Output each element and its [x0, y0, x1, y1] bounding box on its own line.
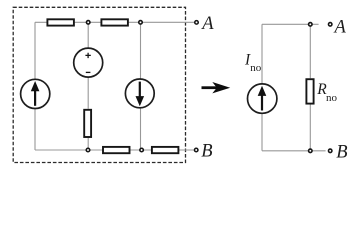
- wire left branch (left circuit): [34, 22, 36, 150]
- voltage source (+/-): [74, 48, 103, 77]
- terminal B (right circuit): [328, 149, 332, 153]
- current source Ino (up arrow): [248, 84, 277, 113]
- svg-text:A: A: [200, 14, 214, 34]
- resistor middle vertical: [84, 110, 91, 137]
- svg-text:A: A: [333, 17, 347, 37]
- svg-text:no: no: [250, 62, 262, 74]
- current source right (down arrow): [125, 79, 154, 108]
- resistor top-left: [47, 19, 74, 25]
- svg-text:no: no: [326, 92, 338, 104]
- wire top bus (right circuit): [262, 23, 319, 25]
- terminal A (right circuit): [328, 23, 332, 27]
- wire bottom bus (right circuit): [262, 150, 326, 152]
- resistor bottom-left: [103, 147, 130, 153]
- wire Rno branch (right circuit): [309, 24, 311, 151]
- resistor Rno: [306, 79, 313, 103]
- resistor top-right: [101, 19, 128, 25]
- wire middle branch (left circuit): [87, 22, 89, 150]
- current source left (up arrow): [21, 79, 50, 108]
- node top (right circuit): [309, 23, 313, 27]
- wire bottom bus (left circuit): [35, 149, 194, 151]
- node bottom (right circuit): [309, 149, 313, 153]
- node top-right: [139, 21, 143, 25]
- node bottom-right: [140, 148, 144, 152]
- wire left branch (right circuit): [261, 24, 263, 151]
- terminal B (left circuit): [194, 148, 198, 152]
- wire right branch (left circuit): [140, 22, 142, 150]
- label Rno: [316, 81, 337, 104]
- node bottom-middle: [86, 148, 90, 152]
- terminal A (left circuit): [195, 21, 199, 25]
- node top-middle: [86, 21, 90, 25]
- svg-text:B: B: [336, 142, 347, 162]
- svg-text:B: B: [201, 141, 212, 161]
- implication arrow: [202, 82, 231, 93]
- wire top bus (left circuit): [35, 21, 195, 23]
- label Ino: [244, 52, 262, 74]
- resistor bottom-right: [152, 147, 179, 153]
- dashed source-network boundary box: [13, 7, 185, 162]
